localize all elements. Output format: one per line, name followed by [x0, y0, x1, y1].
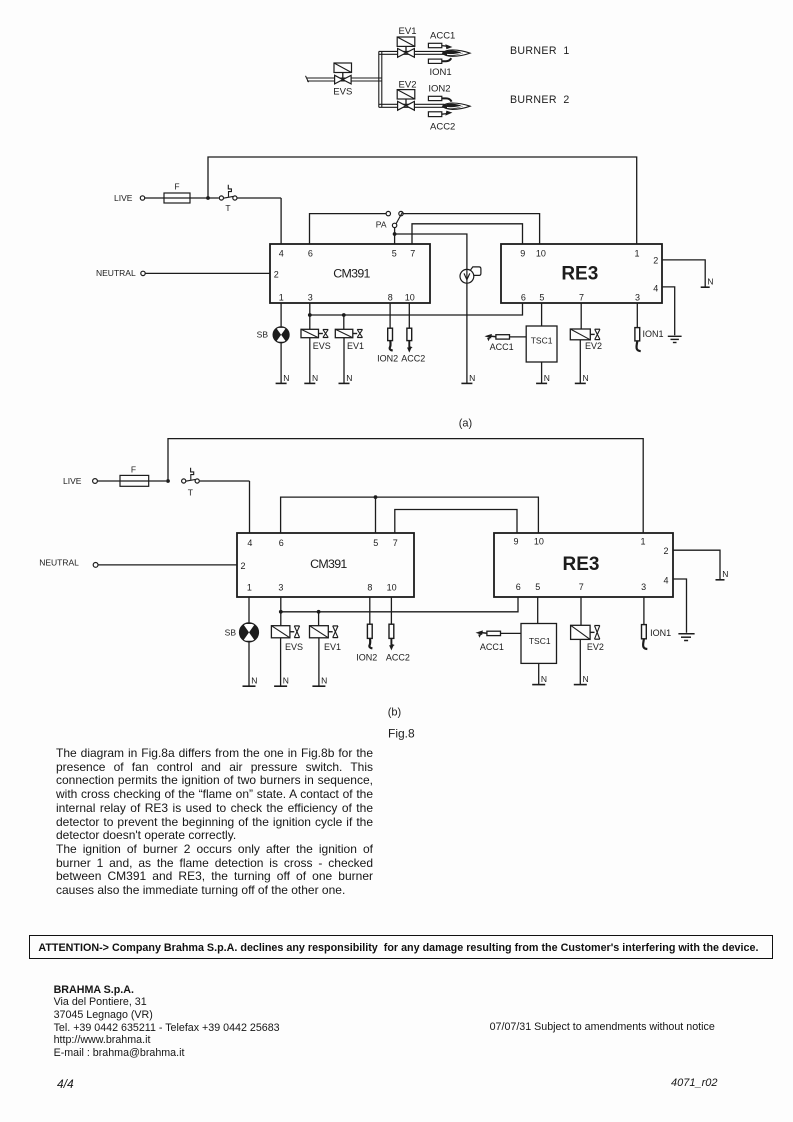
svg-text:LIVE: LIVE: [114, 193, 133, 203]
svg-text:ACC1: ACC1: [430, 31, 455, 42]
svg-text:F: F: [131, 465, 136, 475]
svg-text:5: 5: [539, 293, 544, 303]
svg-text:T: T: [188, 487, 193, 497]
svg-text:RE3: RE3: [561, 264, 598, 285]
svg-text:5: 5: [373, 538, 378, 548]
svg-text:4: 4: [247, 538, 252, 548]
svg-text:ION2: ION2: [377, 353, 398, 363]
svg-text:3: 3: [635, 293, 640, 303]
svg-text:EV1: EV1: [324, 642, 341, 652]
svg-text:SB: SB: [257, 330, 269, 340]
svg-text:5: 5: [392, 248, 397, 258]
svg-text:EV1: EV1: [347, 341, 364, 351]
svg-text:NEUTRAL: NEUTRAL: [96, 268, 136, 278]
svg-text:N: N: [707, 277, 713, 287]
svg-text:RE3: RE3: [563, 554, 600, 575]
svg-text:2: 2: [653, 255, 658, 265]
svg-text:6: 6: [521, 293, 526, 303]
svg-text:N: N: [469, 373, 475, 383]
svg-text:N: N: [346, 373, 352, 383]
svg-text:5: 5: [535, 582, 540, 592]
svg-text:10: 10: [536, 248, 546, 258]
svg-text:EV2: EV2: [585, 341, 602, 351]
svg-text:N: N: [312, 373, 318, 383]
svg-text:4: 4: [663, 576, 668, 586]
svg-text:8: 8: [388, 293, 393, 303]
svg-text:LIVE: LIVE: [63, 476, 82, 486]
svg-text:(b): (b): [388, 707, 401, 719]
svg-text:ION1: ION1: [430, 67, 452, 78]
svg-text:4: 4: [279, 248, 284, 258]
svg-text:NEUTRAL: NEUTRAL: [39, 558, 79, 568]
svg-text:EVS: EVS: [285, 642, 303, 652]
svg-text:EV2: EV2: [399, 79, 417, 90]
svg-text:F: F: [174, 181, 179, 191]
svg-text:10: 10: [387, 583, 397, 593]
svg-text:N: N: [283, 676, 289, 686]
svg-text:ION1: ION1: [643, 329, 664, 339]
svg-text:7: 7: [410, 248, 415, 258]
svg-text:ACC2: ACC2: [401, 353, 425, 363]
svg-text:1: 1: [279, 293, 284, 303]
svg-text:TSC1: TSC1: [529, 636, 551, 646]
svg-text:N: N: [283, 373, 289, 383]
svg-text:6: 6: [279, 538, 284, 548]
svg-text:CM391: CM391: [310, 557, 347, 571]
svg-text:N: N: [583, 373, 589, 383]
svg-text:ACC1: ACC1: [480, 642, 504, 652]
svg-text:EV1: EV1: [399, 26, 417, 37]
svg-text:9: 9: [513, 537, 518, 547]
svg-text:3: 3: [641, 582, 646, 592]
svg-text:N: N: [544, 373, 550, 383]
svg-text:6: 6: [308, 248, 313, 258]
svg-text:10: 10: [405, 293, 415, 303]
svg-text:ACC2: ACC2: [430, 121, 455, 132]
svg-text:N: N: [583, 674, 589, 684]
svg-text:3: 3: [278, 583, 283, 593]
svg-text:1: 1: [634, 248, 639, 258]
svg-text:PA: PA: [376, 219, 387, 229]
svg-text:BURNER 1: BURNER 1: [510, 45, 570, 57]
svg-text:CM391: CM391: [333, 266, 370, 280]
svg-text:(a): (a): [459, 418, 472, 430]
svg-text:T: T: [225, 203, 230, 213]
svg-text:ION1: ION1: [650, 628, 671, 638]
svg-text:N: N: [251, 676, 257, 686]
svg-text:Fig.8: Fig.8: [388, 727, 415, 741]
svg-text:2: 2: [663, 546, 668, 556]
svg-text:2: 2: [240, 561, 245, 571]
svg-text:7: 7: [579, 582, 584, 592]
svg-text:ACC2: ACC2: [386, 653, 410, 663]
svg-text:N: N: [722, 569, 728, 579]
svg-text:TSC1: TSC1: [531, 336, 553, 346]
svg-text:10: 10: [534, 537, 544, 547]
svg-text:4: 4: [653, 283, 658, 293]
svg-text:ION2: ION2: [428, 84, 450, 95]
svg-text:8: 8: [367, 583, 372, 593]
svg-text:EVS: EVS: [313, 341, 331, 351]
svg-text:ACC1: ACC1: [490, 342, 514, 352]
svg-text:7: 7: [393, 538, 398, 548]
svg-text:3: 3: [308, 293, 313, 303]
svg-text:N: N: [541, 674, 547, 684]
svg-text:2: 2: [274, 270, 279, 280]
svg-text:1: 1: [640, 537, 645, 547]
svg-text:1: 1: [247, 583, 252, 593]
svg-text:BURNER 2: BURNER 2: [510, 94, 570, 106]
svg-text:EVS: EVS: [333, 86, 352, 97]
svg-text:ION2: ION2: [356, 653, 377, 663]
svg-text:EV2: EV2: [587, 642, 604, 652]
svg-text:SB: SB: [225, 628, 237, 638]
svg-text:7: 7: [579, 293, 584, 303]
svg-text:N: N: [321, 676, 327, 686]
svg-text:6: 6: [516, 582, 521, 592]
svg-text:9: 9: [520, 248, 525, 258]
